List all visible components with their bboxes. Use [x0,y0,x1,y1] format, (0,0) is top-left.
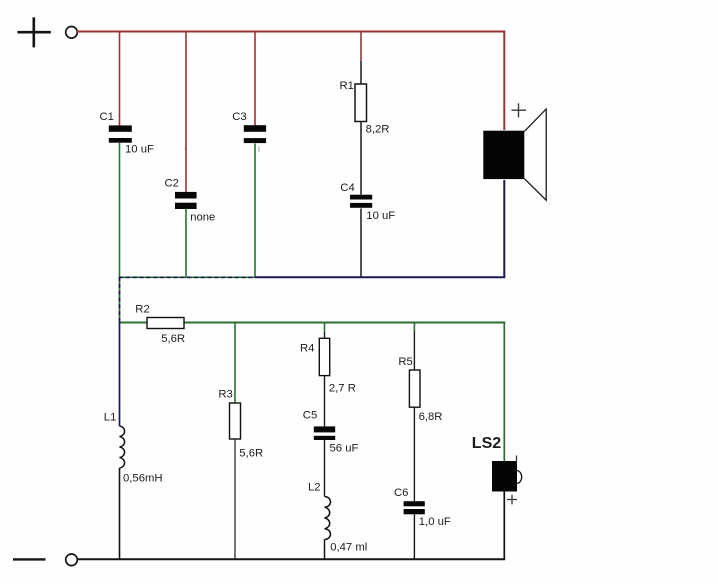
inductor L1 [120,426,125,468]
minus terminal symbol [13,558,46,560]
svg-text:C6: C6 [394,487,408,499]
wire black LS2 down [503,492,505,560]
resistor R2 [147,318,184,329]
speaker LS1 [483,109,546,200]
wire navy LS1 down [503,180,505,277]
resistor R1 [355,84,367,122]
wire black R3 down [234,439,236,559]
wire green drop below C2 [185,209,187,278]
resistor R5 [409,370,420,407]
wire green drop below C3 [254,144,256,278]
wire black R4 top lead [324,332,326,338]
svg-text:C5: C5 [303,410,317,422]
svg-text:R1: R1 [340,80,354,92]
wire black C6 down [413,514,415,559]
capacitor C1 [109,125,132,142]
capacitor C6 [404,501,425,514]
capacitor C5 [314,426,335,440]
svg-text:C4: C4 [340,182,354,194]
wire black R1 to C4 [360,122,362,195]
wire navy L1 upper [119,322,121,426]
wire black R5 top lead [413,331,415,371]
wire green drop below C1 [119,143,121,278]
svg-text:5,6R: 5,6R [239,447,263,459]
wire red drop to C3 [254,32,256,127]
wire black R1 top lead [360,61,362,84]
wire green drop to R3 [234,323,236,404]
svg-text:L1: L1 [104,411,117,423]
wire red top rail [77,31,505,33]
svg-text:C1: C1 [100,111,114,123]
wire red drop to C1 [119,32,121,127]
capacitor C4 [350,195,372,208]
wire green drop to LS2 [503,323,505,462]
svg-text:6,8R: 6,8R [419,411,443,423]
svg-text:R2: R2 [135,303,149,315]
black bottom rail [78,558,506,560]
wire red drop to C2 [185,32,187,193]
svg-text:5,6R: 5,6R [161,333,185,345]
svg-text:C3: C3 [232,111,246,123]
wire green drop to R5 [413,323,415,332]
svg-text:10 uF: 10 uF [366,210,395,222]
navy rail solid [255,276,505,278]
wire red drop to LS1 [503,32,505,131]
svg-text:R3: R3 [218,389,232,401]
plus polarity LS2 [507,495,517,505]
svg-text:0,56mH: 0,56mH [123,473,163,485]
wire black C5 to L2 [324,440,326,497]
dashed drop navy overlay [119,277,121,322]
inductor L2 [325,497,331,540]
wire red drop to R1 [360,32,362,62]
plus polarity LS1 [512,103,527,117]
resistor R4 [319,338,329,375]
svg-text:8,2R: 8,2R [366,124,390,136]
plus terminal symbol [17,17,50,47]
svg-text:0,47 ml: 0,47 ml [330,542,367,554]
svg-text:none: none [190,211,215,223]
svg-text:C2: C2 [165,178,179,190]
negative input terminal [66,554,78,566]
wire black L2 down [324,540,326,560]
dashed drop to bottom section green underlay [119,277,121,322]
svg-text:56 uF: 56 uF [330,443,359,455]
svg-text:2,7 R: 2,7 R [329,383,356,395]
capacitor C3 [244,125,266,143]
svg-text:1,0 uF: 1,0 uF [419,516,451,528]
faint scan artifacts [185,147,260,153]
resistor R3 [230,403,241,439]
wire black R5 to C6 [413,407,415,501]
svg-text:LS2: LS2 [472,435,501,452]
speaker LS2 [492,456,522,492]
navy rail dashed overlay [119,276,255,278]
capacitor C2 [175,192,197,209]
green bottom rail [119,322,506,324]
svg-text:10 uF: 10 uF [125,143,154,155]
positive input terminal [66,27,78,39]
svg-text:R4: R4 [300,343,314,355]
wire green drop to R4 [324,323,326,333]
navy rail green underlay [120,276,256,278]
wire black C4 down [360,209,362,278]
wire black R4 to C5 [324,376,326,427]
wire black L1 down [119,468,121,560]
svg-text:L2: L2 [308,482,321,494]
svg-text:R5: R5 [398,356,412,368]
